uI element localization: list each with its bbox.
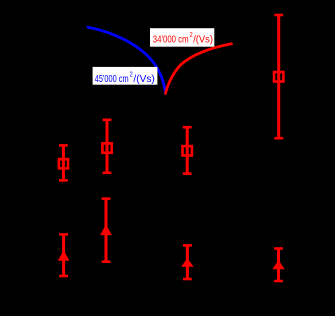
errorbar square point 1 bbox=[59, 145, 68, 180]
errorbar triangle point 4 bbox=[272, 249, 284, 282]
curve red mobility fit bbox=[166, 44, 232, 94]
label 34'000 cm2/(Vs) bbox=[150, 28, 214, 47]
errorbar triangle point 3 bbox=[181, 245, 194, 279]
errorbar square point 4 bbox=[274, 15, 283, 138]
label 45'000 cm2/(Vs) bbox=[93, 67, 158, 85]
errorbar triangle point 2 bbox=[100, 199, 112, 262]
errorbar square point 3 bbox=[183, 127, 192, 173]
errorbar square point 2 bbox=[102, 120, 111, 173]
curve blue mobility fit bbox=[88, 27, 166, 93]
errorbar triangle point 1 bbox=[58, 234, 70, 276]
